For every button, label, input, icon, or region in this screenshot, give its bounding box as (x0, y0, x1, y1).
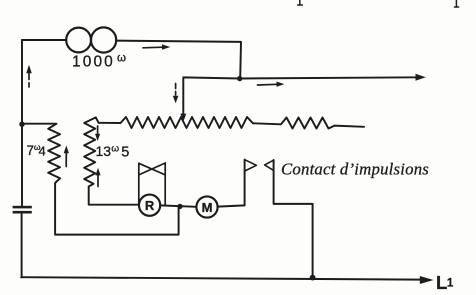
capacitor plate top (13, 206, 32, 209)
stray text fragment top middle (298, 0, 303, 5)
svg-text:5: 5 (121, 145, 129, 161)
svg-text:4: 4 (39, 143, 46, 158)
wire long arrow line to the right (240, 77, 420, 78)
svg-text:1000: 1000 (72, 53, 115, 70)
svg-text:ω: ω (111, 143, 119, 154)
motor M circle (196, 196, 217, 217)
wire left vertical (top section) (21, 40, 23, 206)
relay armature box (bowtie) left leg (138, 163, 140, 204)
arrowhead down onto resistor (180, 114, 186, 122)
arrowhead small arrow under long arrow (277, 82, 285, 87)
resistor 13w5 vertical + wire to relay R (84, 117, 139, 204)
wire left vertical (below capacitor) (21, 214, 23, 278)
wire branch left from node to down-arrow (183, 77, 240, 114)
contact triangle right (pointing left) (265, 160, 274, 170)
junction dot on bottom wire (310, 275, 316, 281)
wire motor M right, up to left contact triangle (218, 160, 245, 207)
arrowhead up arrow beside 7w4 (64, 145, 69, 153)
wire bottom horizontal to L1 (21, 277, 420, 279)
node dot on left wire (19, 122, 24, 127)
wire relay R to junction to motor M (160, 205, 196, 206)
dashed down arrow (dash 2) (175, 92, 177, 96)
contact triangle right lead down/step/down to bottom wire (274, 160, 313, 278)
capacitor plate bottom (13, 211, 32, 214)
svg-text:M: M (202, 200, 213, 215)
resistor 7w4 vertical + bottom wire to junction under R (22, 124, 179, 235)
up arrow bottom of 13w5 (shaft) (97, 175, 99, 187)
contact triangle left (pointing right) (245, 160, 256, 171)
arrowhead long right arrow (416, 74, 426, 81)
svg-text:7: 7 (27, 143, 35, 158)
small arrow under long arrow (shaft) (258, 83, 278, 86)
relay coil R circle (139, 195, 160, 216)
junction dot under top corner (237, 76, 242, 81)
arrowhead bottom L1 arrow (420, 276, 434, 284)
svg-text:Contact d’impulsions: Contact d’impulsions (281, 160, 429, 179)
relay armature box (bowtie) right leg (164, 163, 166, 205)
svg-text:ω: ω (117, 53, 126, 65)
arrowhead up arrow bottom of 13w5 (95, 168, 100, 176)
arrowhead down arrow top of 13w5 (95, 134, 100, 141)
arrowhead up arrow on left wire (26, 65, 32, 73)
lamp/resistor 1000w circle 1 (66, 28, 91, 53)
arrowhead small arrow under top wire (162, 44, 170, 49)
relay bowtie diagonal 1 (139, 163, 165, 175)
wire top horizontal right + drop to node (116, 41, 241, 79)
small arrow under top wire (shaft) (143, 46, 163, 49)
up arrow beside 7w4 (shaft) (65, 153, 67, 167)
svg-text:L1: L1 (436, 272, 454, 293)
relay bowtie diagonal 2 (139, 163, 165, 175)
svg-text:R: R (145, 198, 155, 213)
resistor main horizontal (99, 117, 364, 129)
up arrow on left wire (tail dash) (28, 83, 30, 87)
wire top horizontal to lamp (22, 39, 66, 41)
junction dot between R and M (177, 204, 182, 209)
dashed down arrow (dash 1) (175, 84, 177, 89)
stray text fragment top right (454, 0, 458, 7)
arrowhead dashed arrow (173, 96, 179, 103)
down arrow top of 13w5 (shaft) (97, 126, 99, 135)
svg-text:13: 13 (96, 143, 112, 159)
up arrow on left wire (shaft) (28, 73, 30, 80)
lamp/resistor 1000w circle 2 (91, 27, 116, 52)
